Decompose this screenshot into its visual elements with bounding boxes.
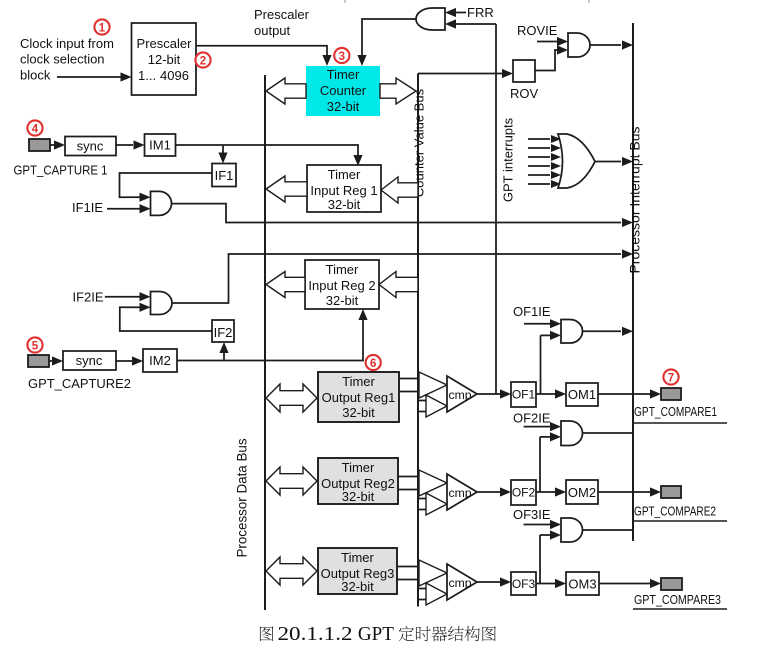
svg-text:OF1: OF1 [512,388,536,402]
wire OF2IE to gate [524,422,561,431]
label Prescaler output [254,7,310,38]
svg-text:20.1.1.2: 20.1.1.2 [278,624,353,645]
hollow arrow counter to value bus [380,78,416,104]
label OF2IE [513,411,551,426]
sync block 2 [63,351,116,370]
wire IM1 to IF1 [218,145,227,164]
svg-text:GPT_COMPARE2: GPT_COMPARE2 [634,505,716,519]
wire IF1 to gate [120,173,213,202]
caption 图 20.1.1.2 GPT 定时器结构图 [260,624,496,645]
hollow double arrow output reg 3 [266,557,317,585]
comparator cmp1 [447,376,477,412]
timer output reg 2 [318,458,398,504]
label Processor Data Bus [235,438,250,557]
wire cmp3 to OF3 [477,577,511,586]
svg-text:GPT_CAPTURE 1: GPT_CAPTURE 1 [14,164,108,178]
wire gate to interrupt bus of2 [583,432,634,434]
wire OF1 to gate [541,331,562,394]
label Processor Interrupt Bus [627,126,643,273]
wire clock input to prescaler [57,72,132,81]
svg-text:1: 1 [99,22,106,34]
underline 2 [633,520,727,522]
svg-text:Prescaler: Prescaler [254,7,310,22]
wire FRR to gate [445,8,466,17]
and gate U1 (FRR) [416,8,445,30]
svg-text:5: 5 [32,340,39,352]
wire IM2 to IF2 [219,342,228,361]
and gate U7 (OF2IE) [561,421,583,446]
svg-text:Input Reg 1: Input Reg 1 [310,183,377,198]
open arrow bus to cmp2 [426,493,447,515]
wire sync to IM2 [116,356,143,365]
counter value bus [417,74,419,607]
IF1 box [212,164,236,187]
open arrow reg2 to cmp [419,470,447,496]
svg-text:32-bit: 32-bit [328,197,361,212]
and gate U2 (ROVIE) [568,33,590,57]
OF1 box [511,382,536,407]
hollow arrow input reg 1 to data bus [266,176,307,202]
OF2 box [511,480,536,505]
wire OF2 to gate [540,432,561,492]
wire pad to sync 2 [49,356,63,365]
ROV flag box [510,60,539,101]
svg-text:OM1: OM1 [568,387,596,402]
svg-text:OF3IE: OF3IE [513,507,551,522]
wire gate1 to interrupt bus [172,204,634,227]
svg-text:3: 3 [339,51,345,63]
label GPT_COMPARE3 [634,593,721,607]
IM1 box [145,134,176,156]
wire IF2 to gate [120,303,212,331]
label GPT_COMPARE1 [634,405,717,419]
svg-text:12-bit: 12-bit [148,52,181,67]
svg-text:OF2: OF2 [512,486,536,500]
svg-text:IM2: IM2 [149,353,171,368]
wire IM1 to input reg 1 [176,145,363,166]
svg-text:ROVIE: ROVIE [517,23,558,38]
timer output reg 1 [318,372,399,422]
IF2 box [212,320,234,342]
pad GPT_CAPTURE 1 [29,139,50,151]
svg-text:GPT_COMPARE3: GPT_COMPARE3 [634,593,721,607]
svg-text:IF2: IF2 [214,325,233,340]
timer output reg 3 [318,548,397,594]
pad GPT_COMPARE2 [661,486,681,498]
hollow double arrow output reg 2 [266,467,317,495]
svg-text:GPT_COMPARE1: GPT_COMPARE1 [634,405,717,419]
svg-text:clock selection: clock selection [20,52,105,67]
open arrow bus to cmp1 [426,395,447,417]
processor interrupt bus [632,23,634,541]
wire OF3 to OM3 [536,579,566,588]
wire reg3 to cmp tails [397,567,419,580]
pad GPT_CAPTURE2 [28,355,49,367]
OM3 box [566,572,599,595]
and gate U5 (IF2IE) [151,292,173,315]
OM2 box [566,480,598,504]
svg-text:GPT: GPT [358,624,394,645]
label OF1IE [513,304,551,319]
svg-text:block: block [20,68,51,83]
wire gate to interrupt bus of3 [583,529,634,531]
wire OF1IE to gate [524,319,561,328]
and gate U6 (OF1IE) [561,320,583,344]
and gate U4 (IF1IE) [151,191,172,215]
underline 3 [633,608,727,610]
wire OF3 to gate [540,530,561,583]
label GPT_CAPTURE2 [28,377,131,391]
wire pad to sync [50,140,65,149]
hollow arrow counter to data bus [266,78,306,104]
pad GPT_COMPARE1 [661,388,681,400]
pad GPT_COMPARE3 [661,578,682,590]
hollow arrow value bus to input reg 1 [381,177,418,203]
svg-text:Processor Data Bus: Processor Data Bus [235,438,250,557]
wire OF1 to OM1 [536,389,566,398]
svg-text:32-bit: 32-bit [327,99,360,114]
label IF1IE [72,200,103,215]
OF3 box [511,572,536,595]
marker 3 [334,48,349,63]
hollow arrow value bus to input reg 2 [379,272,418,298]
marker 6 [366,355,381,370]
svg-text:OF2IE: OF2IE [513,411,551,426]
svg-text:Timer: Timer [342,460,375,475]
wire OM3 to pad [599,579,661,588]
wire prescaler output to counter [196,46,332,66]
svg-text:OF3: OF3 [512,577,536,591]
svg-text:OF1IE: OF1IE [513,304,551,319]
wires gpt interrupt inputs [528,135,561,188]
label clock input [20,36,114,83]
wire reg2 to cmp tails [398,477,419,490]
marker 4 [27,120,42,135]
wire OM2 to pad [598,487,661,496]
wire feedback vertical [495,24,497,394]
svg-text:Timer: Timer [328,167,361,182]
open arrow bus to cmp3 [426,583,447,605]
wire OF3IE to gate [524,520,562,529]
wire IF1IE to gate [107,204,151,213]
svg-text:2: 2 [200,55,206,67]
svg-text:Prescaler: Prescaler [137,36,193,51]
processor data bus [264,75,266,610]
marker 7 [663,369,678,384]
wire value bus to cmp3 tails [418,589,426,600]
svg-text:32-bit: 32-bit [342,405,375,420]
wire cmp1 to OF1 [477,389,511,398]
svg-text:6: 6 [370,358,376,370]
label ROVIE [517,23,558,38]
label IF2IE [73,290,104,305]
svg-text:GPT interrupts: GPT interrupts [501,117,516,202]
wire OF2 to OM2 [536,487,566,496]
svg-text:sync: sync [77,139,104,154]
wire ROVIE to gate [537,37,568,46]
svg-text:32-bit: 32-bit [326,293,359,308]
svg-text:IF2IE: IF2IE [73,290,104,305]
svg-text:32-bit: 32-bit [341,579,374,594]
marker 2 [195,52,210,67]
svg-text:32-bit: 32-bit [342,489,375,504]
underline 1 [633,422,727,424]
wire IF2IE to gate [105,292,151,301]
svg-text:Input Reg 2: Input Reg 2 [308,278,375,293]
wire IM2 to input reg 2 [177,309,368,361]
wire gate to counter [357,19,416,66]
label OF3IE [513,507,551,522]
label FRR [467,5,494,20]
wire or gate to interrupt bus [595,157,633,166]
wire compare feedback to gate [445,19,496,28]
svg-text:cmp: cmp [449,388,472,402]
wire value bus to cmp1 tails [418,401,426,412]
label Counter Value Bus [412,88,427,197]
wire gate to interrupt bus [590,40,633,49]
svg-text:sync: sync [76,353,103,368]
svg-text:Output Reg1: Output Reg1 [322,390,396,405]
wire sync to IM1 [116,140,145,149]
label GPT interrupts [501,117,516,202]
timer counter register [306,66,380,116]
wire OM1 to pad [598,389,661,398]
svg-text:Timer: Timer [342,374,375,389]
or gate U3 (GPT interrupts) [558,134,595,188]
svg-text:Counter Value Bus: Counter Value Bus [412,88,427,197]
svg-text:FRR: FRR [467,5,494,20]
hollow arrow input reg 2 to data bus [266,272,305,298]
svg-text:ROV: ROV [510,86,539,101]
timer input reg 1 [307,165,381,212]
IM2 box [143,349,177,372]
svg-text:OM2: OM2 [568,485,596,500]
open arrow reg3 to cmp [419,560,447,586]
svg-text:Timer: Timer [326,262,359,277]
svg-text:cmp: cmp [449,576,472,590]
OM1 box [566,383,598,406]
svg-text:OM3: OM3 [568,577,596,592]
svg-text:4: 4 [32,123,39,135]
svg-text:4096: 4096 [160,68,189,83]
svg-text:IF1: IF1 [215,168,234,183]
svg-text:IM1: IM1 [149,138,171,153]
svg-text:output: output [254,23,291,38]
open arrow reg1 to cmp [419,372,447,398]
svg-text:Clock input from: Clock input from [20,36,114,51]
hollow double arrow output reg 1 [266,384,317,412]
label GPT_CAPTURE 1 [14,164,108,178]
svg-text:GPT_CAPTURE2: GPT_CAPTURE2 [28,377,131,391]
wire value bus to cmp2 tails [418,499,426,510]
svg-text:IF1IE: IF1IE [72,200,103,215]
svg-text:1...: 1... [138,68,156,83]
svg-text:Processor Interrupt Bus: Processor Interrupt Bus [627,126,643,273]
wire value bus to ROV [418,69,513,78]
label GPT_COMPARE2 [634,505,716,519]
wire cmp2 to OF2 [477,487,511,496]
wire gate2 to interrupt bus [172,249,633,303]
marker 1 [94,19,109,34]
svg-text:cmp: cmp [449,486,472,500]
comparator cmp2 [447,474,477,510]
svg-text:Counter: Counter [320,83,367,98]
scan artifacts top edge [344,0,590,3]
svg-text:7: 7 [668,372,674,384]
svg-text:Timer: Timer [341,550,374,565]
and gate U8 (OF3IE) [561,518,583,542]
wire reg1 to cmp tails [399,379,419,392]
marker 5 [27,337,42,352]
prescaler block [132,23,197,95]
svg-text:Timer: Timer [327,67,360,82]
timer input reg 2 [305,260,379,309]
comparator cmp3 [447,564,477,600]
sync block 1 [65,137,116,156]
wire ROV to gate [535,45,568,70]
wire gate to interrupt bus of1 [583,327,634,336]
